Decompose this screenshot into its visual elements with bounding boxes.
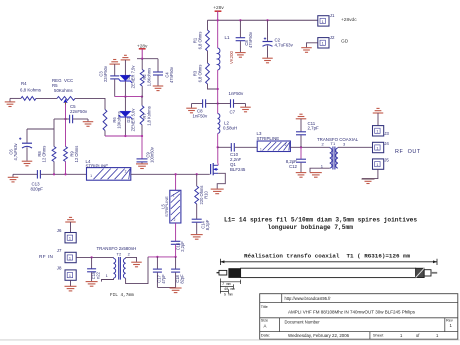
- wire R8 bottom: [53, 162, 55, 175]
- label GD: [341, 39, 349, 45]
- svg-text:1: 1: [69, 237, 71, 241]
- svg-text:10Kohms: 10Kohms: [116, 111, 121, 128]
- svg-text:http://www.broadcast95.fr: http://www.broadcast95.fr: [285, 296, 332, 301]
- junction R7-C9: [141, 135, 143, 137]
- ground above J3: [373, 108, 384, 125]
- svg-text:J7: J7: [57, 248, 62, 253]
- inductor L1: [218, 20, 234, 103]
- svg-text:820pF: 820pF: [31, 187, 44, 192]
- ground for J2: [301, 48, 312, 53]
- wire R9 bottom: [65, 162, 67, 175]
- wire T1 pin1 to ground: [310, 168, 330, 172]
- svg-text:4,7uF63v: 4,7uF63v: [275, 42, 294, 47]
- svg-text:1,8 Kohms: 1,8 Kohms: [146, 106, 151, 126]
- inductor L2: [218, 104, 237, 148]
- svg-text:T2: T2: [117, 251, 122, 256]
- svg-text:1,8Kohms: 1,8Kohms: [146, 68, 151, 86]
- coax cable body: [241, 268, 416, 277]
- svg-text:STRIPLINE: STRIPLINE: [164, 196, 169, 217]
- junction C15 node: [90, 256, 92, 258]
- connector J5: [373, 158, 390, 170]
- capacitor C6 4,7uF63v: [9, 129, 33, 161]
- svg-text:BLF245: BLF245: [230, 167, 246, 172]
- coax right hatched block: [416, 268, 425, 277]
- label FIL 4,7mm: [110, 293, 134, 298]
- title block size: [261, 319, 268, 329]
- ground T2 pin2: [131, 262, 142, 267]
- wire J7 to T2: [76, 256, 113, 258]
- svg-text:AMPLI VHF FM 88/108Mhz IN 740m: AMPLI VHF FM 88/108Mhz IN 740mwOUT 30w B…: [288, 310, 416, 315]
- svg-text:2: 2: [125, 170, 127, 174]
- resistor R3: [193, 63, 210, 84]
- resistor R1: [193, 30, 210, 51]
- note L1 winding line2: [268, 224, 354, 231]
- wire J5 to ground: [362, 169, 378, 178]
- capacitor C17 47pF: [153, 257, 166, 288]
- svg-text:12 Ohms: 12 Ohms: [74, 146, 79, 163]
- capacitor C3 22nF50v: [98, 65, 119, 97]
- svg-text:1nF50v: 1nF50v: [229, 91, 244, 96]
- svg-text:STRIPLINE: STRIPLINE: [257, 136, 280, 141]
- junction R9-line: [64, 173, 66, 175]
- junction R2 flag: [141, 58, 143, 60]
- svg-text:Rev: Rev: [446, 319, 453, 323]
- wire J2 to ground: [307, 43, 318, 48]
- ground for C15: [86, 282, 98, 287]
- ground for C4: [153, 86, 164, 91]
- title block rev: [446, 319, 453, 329]
- resistor R2: [140, 59, 151, 97]
- svg-text:L1: L1: [225, 35, 231, 40]
- junction rail-L1: [217, 19, 219, 21]
- svg-text:4,7uF63v: 4,7uF63v: [13, 143, 18, 161]
- wire R1-R3: [207, 51, 209, 63]
- svg-text:T1: T1: [331, 141, 336, 146]
- svg-text:6,8 Ohms: 6,8 Ohms: [198, 32, 203, 50]
- transformer T1 TRANSFO COAXIAL: [317, 137, 359, 170]
- svg-text:1: 1: [322, 20, 324, 24]
- svg-text:1: 1: [376, 163, 378, 167]
- junction C16-C18 node: [174, 256, 176, 258]
- wire R3 to L1 column: [208, 84, 218, 89]
- connector J7: [57, 248, 76, 263]
- wire node D1-R2: [115, 96, 142, 98]
- wire gnd-R4: [10, 97, 21, 99]
- transistor Q1 BLF245: [211, 152, 246, 175]
- svg-text:J8: J8: [57, 266, 62, 271]
- svg-text:J3: J3: [384, 131, 389, 136]
- wire rail to R1: [207, 20, 209, 30]
- capacitor C8 47nF50v: [236, 20, 254, 52]
- svg-text:47nF50v: 47nF50v: [248, 31, 253, 48]
- ground above J6: [65, 217, 76, 232]
- wire Q1 drain: [217, 147, 219, 163]
- svg-text:R4: R4: [21, 81, 27, 86]
- svg-text:VK200: VK200: [229, 50, 234, 64]
- svg-text:22nF50v: 22nF50v: [70, 109, 88, 114]
- capacitor C10 2,2nF: [218, 143, 258, 152]
- capacitor C7 1nF50v: [218, 91, 246, 115]
- coax left pin: [217, 272, 220, 274]
- svg-text:6,8 Kohms: 6,8 Kohms: [20, 88, 42, 93]
- svg-text:Wednesday, February 22, 2006: Wednesday, February 22, 2006: [288, 333, 350, 338]
- svg-text:RF IN: RF IN: [39, 254, 53, 259]
- wire C6 stub: [27, 128, 54, 130]
- svg-text:100n50v: 100n50v: [150, 146, 155, 163]
- resistor R9: [64, 146, 79, 163]
- zener diode D1: [119, 65, 135, 97]
- svg-text:A: A: [264, 323, 267, 328]
- resistor R4: [20, 81, 42, 100]
- svg-text:47pF: 47pF: [161, 274, 166, 284]
- svg-text:n22: n22: [95, 271, 100, 279]
- title block document number: [285, 320, 321, 325]
- ground T1 pin1: [310, 173, 322, 178]
- potentiometer R5 REG VCC: [52, 78, 75, 105]
- ground above D1: [121, 55, 130, 75]
- ground for C2: [262, 58, 273, 63]
- capacitor C12 8,2pF: [286, 147, 306, 172]
- svg-text:1: 1: [260, 147, 262, 151]
- label RF IN: [39, 254, 53, 259]
- capacitor C5 22nF50v: [66, 104, 89, 123]
- capacitor C15 22p: [87, 257, 100, 281]
- ground for C17-C18: [170, 288, 182, 293]
- wire D2-R7 net: [105, 135, 142, 137]
- wire wiper column: [65, 105, 67, 147]
- svg-text:longueur bobinage 7,5mm: longueur bobinage 7,5mm: [268, 224, 354, 231]
- stripline L3: [257, 131, 291, 152]
- svg-text:Title: Title: [261, 305, 268, 309]
- resistor R8: [37, 146, 56, 163]
- svg-text:0,58uH: 0,58uH: [223, 125, 237, 130]
- wire Q1 source: [217, 173, 225, 189]
- ground for J5: [362, 179, 375, 184]
- ground for C12: [296, 173, 307, 178]
- svg-text:1: 1: [69, 274, 71, 278]
- svg-text:R10: R10: [203, 191, 208, 199]
- wire R5-R6: [75, 98, 105, 109]
- power flag +28v (R2): [137, 43, 148, 58]
- svg-text:22nF50v: 22nF50v: [103, 65, 108, 82]
- svg-text:50Kohms: 50Kohms: [54, 88, 73, 93]
- wire T1 pin3 to J4: [338, 146, 373, 148]
- svg-text:STRIPLINE: STRIPLINE: [86, 163, 109, 168]
- svg-text:+28v: +28v: [213, 5, 224, 11]
- coax right connector: [424, 270, 431, 276]
- svg-text:ZENER 5,6v: ZENER 5,6v: [130, 108, 135, 132]
- zener diode D2: [119, 97, 135, 136]
- wire R2 top node: [137, 58, 158, 60]
- svg-text:GD: GD: [341, 39, 349, 45]
- wire T2 pin2 to ground: [126, 257, 137, 262]
- transformer T2 2x580nH: [97, 246, 137, 280]
- svg-text:Réalisation transfo coaxial T: Réalisation transfo coaxial T1 ( RG316)=…: [244, 253, 411, 260]
- resistor R10: [195, 174, 209, 219]
- ground for C14: [191, 235, 203, 240]
- connector J4: [373, 141, 390, 153]
- wire L4 to gate: [131, 173, 210, 175]
- capacitor C18 82pF: [171, 257, 184, 288]
- junction R10-line: [196, 173, 198, 175]
- junction wiper-C5: [64, 118, 66, 120]
- capacitor C16 2,2pF: [171, 223, 185, 257]
- title block frame: [260, 294, 458, 340]
- page bottom border: [0, 339, 460, 341]
- junction C11-C12 node: [300, 146, 302, 148]
- svg-text:J4: J4: [384, 141, 389, 146]
- connector J3: [373, 126, 390, 137]
- svg-text:J6: J6: [57, 228, 62, 233]
- coax small dimensions: [220, 279, 240, 298]
- junction L1-C8-C7 node: [217, 102, 219, 104]
- capacitor C14 8,2pF: [192, 219, 210, 234]
- note L1 winding line1: [224, 217, 417, 224]
- svg-text:5 mm: 5 mm: [224, 293, 233, 297]
- coax left ferrite block: [228, 268, 240, 278]
- ground below J8: [65, 280, 77, 291]
- connector J1: [318, 13, 335, 26]
- svg-text:Sheet: Sheet: [373, 333, 384, 338]
- svg-text:2: 2: [285, 143, 287, 147]
- svg-text:J1: J1: [330, 13, 335, 18]
- capacitor C4 47nF50v: [153, 59, 174, 86]
- capacitor C13 820pF: [13, 170, 87, 191]
- coax dimension line: [220, 259, 437, 265]
- svg-text:J2: J2: [330, 35, 335, 40]
- svg-text:L1= 14 spires fil 5/10mm diam: L1= 14 spires fil 5/10mm diam 3,5mm spir…: [224, 217, 417, 224]
- wire C17-C18 ground bus: [157, 286, 175, 288]
- wire R6 bottom: [104, 131, 106, 137]
- junction rail-C8: [239, 19, 241, 21]
- capacitor C8 1nF50v: [192, 99, 218, 118]
- capacitor C11 2,7pF: [296, 121, 319, 147]
- title block Title label: [261, 305, 268, 309]
- ground above C3: [109, 60, 120, 76]
- junction R8-line: [53, 173, 55, 175]
- connector J6: [57, 228, 76, 243]
- svg-text:2: 2: [174, 218, 176, 222]
- capacitor C2 4,7uF63v: [263, 20, 294, 58]
- junction R3-L1: [217, 88, 219, 90]
- svg-text:1: 1: [90, 174, 92, 178]
- wire R8 column: [53, 119, 55, 147]
- svg-text:8,2pF: 8,2pF: [205, 219, 210, 230]
- svg-text:6,8 Ohms: 6,8 Ohms: [198, 65, 203, 83]
- connector J2: [318, 35, 335, 48]
- ground for Q1 source: [211, 189, 224, 194]
- svg-text:ZENER 7,5v: ZENER 7,5v: [130, 65, 135, 89]
- label RF OUT: [395, 149, 421, 155]
- title block url: [285, 296, 332, 301]
- ground at C13: [8, 174, 19, 182]
- svg-text:Size: Size: [261, 319, 268, 323]
- junction L5-line: [174, 173, 176, 175]
- wire C5 stub: [54, 118, 66, 120]
- ground for C6: [22, 161, 33, 166]
- svg-text:+28vdc: +28vdc: [341, 17, 357, 23]
- svg-text:TRANSFO 2x580nH: TRANSFO 2x580nH: [97, 246, 137, 251]
- svg-text:1: 1: [376, 130, 378, 134]
- svg-text:Date:: Date:: [261, 333, 271, 338]
- svg-text:1nF50v: 1nF50v: [193, 113, 208, 118]
- svg-text:FIL 4,7mm: FIL 4,7mm: [110, 293, 134, 298]
- svg-text:C12: C12: [289, 164, 298, 169]
- coax right pin: [431, 272, 437, 274]
- ground for C8: [186, 104, 197, 113]
- ground for C9: [136, 164, 148, 169]
- title block date: [261, 333, 439, 338]
- svg-text:Document Number: Document Number: [285, 320, 321, 325]
- wire R4-R5: [36, 97, 57, 99]
- svg-text:47nF50v: 47nF50v: [169, 66, 174, 83]
- svg-text:1: 1: [173, 194, 175, 198]
- note coax title: [244, 253, 411, 260]
- connector J8: [57, 266, 76, 281]
- svg-text:82pF: 82pF: [179, 274, 184, 284]
- label +28vdc: [341, 17, 357, 23]
- wire L3 to T1: [290, 146, 329, 148]
- power flag +28v (main rail): [213, 5, 224, 20]
- svg-text:2,7pF: 2,7pF: [308, 126, 320, 131]
- ground above C11: [296, 114, 307, 131]
- junction C17 node: [156, 256, 158, 258]
- junction R2-R7 node: [141, 95, 143, 97]
- svg-text:1: 1: [376, 146, 378, 150]
- svg-text:1: 1: [69, 256, 71, 260]
- junction rail-C2: [266, 19, 268, 21]
- coax left connector: [219, 270, 227, 275]
- ground at R4: [5, 98, 16, 106]
- junction drain node: [217, 146, 219, 148]
- junction D2 anode: [124, 135, 126, 137]
- resistor R6: [103, 110, 121, 131]
- svg-text:12 Ohms: 12 Ohms: [41, 146, 46, 163]
- title block main title: [288, 310, 416, 315]
- ground for C5: [83, 119, 94, 126]
- svg-text:C7: C7: [230, 110, 236, 115]
- capacitor C9 100n50v: [137, 136, 155, 164]
- svg-text:RF OUT: RF OUT: [395, 149, 421, 155]
- svg-text:J5: J5: [384, 158, 389, 163]
- svg-text:1: 1: [322, 42, 324, 46]
- svg-text:2,2pF: 2,2pF: [180, 241, 185, 252]
- stripline L4: [86, 159, 131, 180]
- ground for C7: [240, 104, 251, 112]
- wire T2 pin1 to ground: [102, 278, 114, 281]
- wire +28v rail: [208, 19, 318, 21]
- wire C16-C17 net: [148, 256, 176, 258]
- junction D1 node: [124, 95, 126, 97]
- stripline L5: [161, 174, 181, 223]
- ground for C8 47n: [235, 53, 246, 58]
- resistor R7: [140, 97, 151, 136]
- wire T2 pin3 to C17 net: [126, 257, 148, 284]
